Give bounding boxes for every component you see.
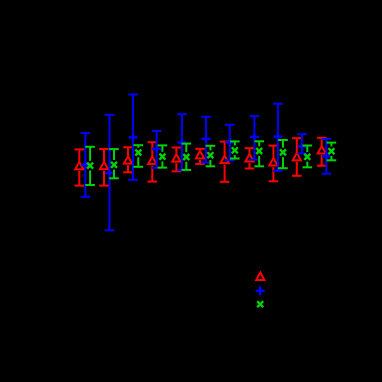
red triangle marker 2 bbox=[100, 162, 108, 170]
red series errorbar 10 bbox=[292, 138, 302, 176]
red triangle marker 6 bbox=[196, 151, 204, 159]
blue plus marker 6 bbox=[202, 134, 211, 143]
green series errorbar 5 bbox=[182, 144, 192, 170]
blue series errorbar 8 bbox=[250, 116, 260, 160]
blue plus marker 8 bbox=[250, 132, 259, 141]
green x marker 9 bbox=[280, 149, 286, 155]
green series errorbar 2 bbox=[109, 149, 119, 178]
red series errorbar 7 bbox=[220, 142, 230, 182]
green x marker 4 bbox=[159, 154, 165, 160]
blue plus marker 7 bbox=[225, 138, 234, 147]
red triangle marker 1 bbox=[75, 162, 83, 170]
blue plus marker 3 bbox=[129, 133, 138, 142]
green x marker 3 bbox=[135, 150, 141, 156]
red triangle marker 10 bbox=[293, 153, 301, 161]
green x marker 5 bbox=[183, 154, 189, 160]
blue series errorbar 10 bbox=[297, 134, 307, 153]
green series errorbar 8 bbox=[254, 141, 264, 166]
blue plus marker 1 bbox=[81, 161, 90, 170]
green series errorbar 3 bbox=[134, 145, 144, 167]
green series errorbar 11 bbox=[327, 143, 337, 161]
red triangle marker 4 bbox=[148, 157, 156, 165]
blue series errorbar 6 bbox=[201, 117, 211, 163]
red series errorbar 6 bbox=[195, 149, 205, 164]
red triangle marker 9 bbox=[269, 158, 277, 166]
green series errorbar 10 bbox=[303, 146, 313, 168]
red series errorbar 4 bbox=[148, 142, 158, 181]
green x marker 10 bbox=[304, 154, 310, 160]
red triangle marker 5 bbox=[172, 154, 180, 162]
blue series errorbar 2 bbox=[105, 115, 115, 230]
blue series errorbar 3 bbox=[128, 95, 138, 180]
blue series errorbar 9 bbox=[273, 104, 283, 171]
blue series errorbar 7 bbox=[225, 125, 235, 161]
green x marker 7 bbox=[232, 147, 238, 153]
green series errorbar 9 bbox=[278, 140, 288, 168]
red triangle marker 8 bbox=[245, 154, 253, 162]
green x marker 1 bbox=[87, 163, 93, 169]
green series errorbar 7 bbox=[230, 141, 240, 158]
red series errorbar 11 bbox=[317, 138, 327, 166]
red series errorbar 9 bbox=[269, 146, 279, 182]
red series errorbar 3 bbox=[123, 147, 133, 172]
green series errorbar 4 bbox=[158, 145, 168, 167]
blue plus marker 10 bbox=[298, 142, 307, 151]
red series errorbar 2 bbox=[99, 149, 109, 186]
red triangle marker 11 bbox=[318, 146, 326, 154]
blue series errorbar 4 bbox=[152, 131, 162, 168]
legend green x bbox=[257, 301, 263, 307]
green x marker 8 bbox=[256, 148, 262, 154]
red series errorbar 5 bbox=[172, 148, 182, 172]
green series errorbar 1 bbox=[85, 147, 95, 185]
legend red triangle bbox=[256, 273, 264, 281]
blue plus marker 11 bbox=[322, 152, 331, 161]
blue series errorbar 1 bbox=[81, 133, 91, 197]
blue plus marker 5 bbox=[177, 138, 186, 147]
blue plus marker 4 bbox=[152, 144, 161, 153]
blue plus marker 9 bbox=[273, 132, 282, 141]
blue series errorbar 5 bbox=[177, 114, 187, 170]
red series errorbar 8 bbox=[245, 148, 255, 168]
green series errorbar 6 bbox=[206, 146, 216, 167]
blue series errorbar 11 bbox=[322, 139, 332, 174]
legend blue plus bbox=[256, 286, 265, 295]
green x marker 2 bbox=[111, 162, 117, 168]
blue plus marker 2 bbox=[105, 169, 114, 178]
red triangle marker 7 bbox=[221, 156, 229, 164]
red triangle marker 3 bbox=[124, 156, 132, 164]
red series errorbar 1 bbox=[75, 149, 85, 185]
green x marker 6 bbox=[207, 152, 213, 158]
green x marker 11 bbox=[328, 148, 334, 154]
